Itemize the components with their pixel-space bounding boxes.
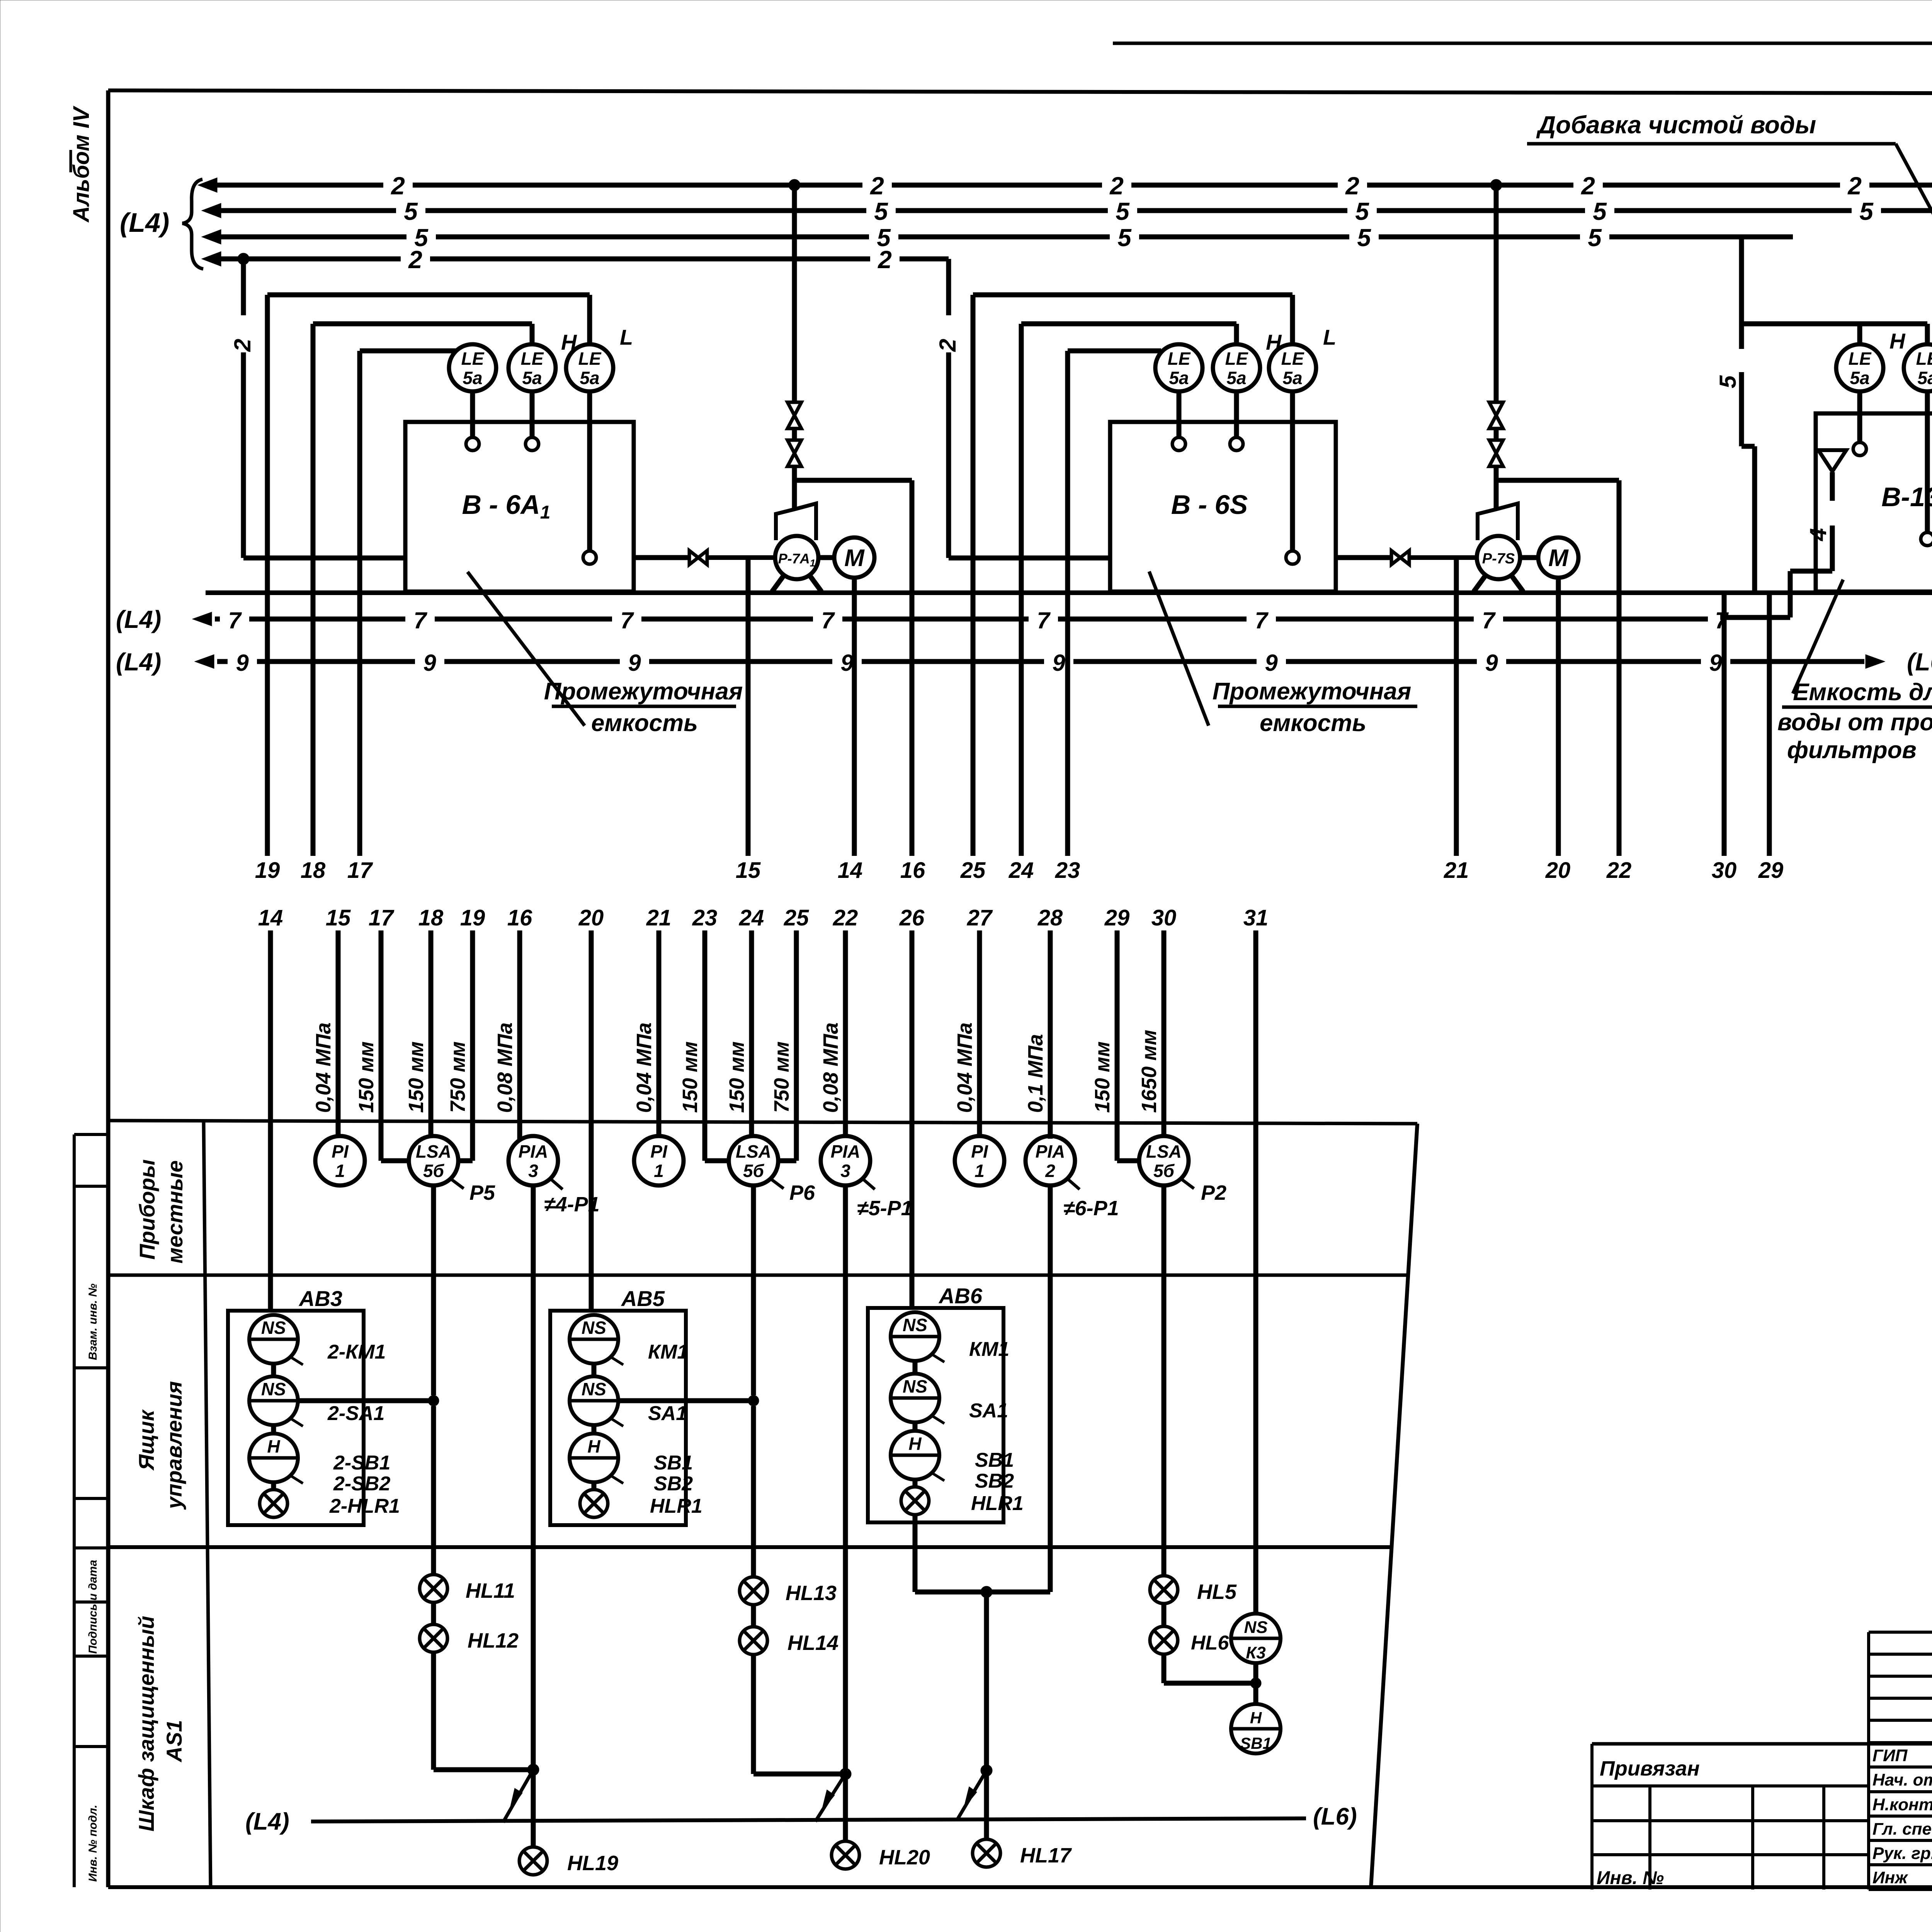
svg-text:НL20: НL20 xyxy=(879,1846,930,1869)
wire bottom bus L4-L6 xyxy=(311,1818,1306,1821)
tank B-13 xyxy=(1816,413,1932,592)
svg-text:26: 26 xyxy=(899,905,925,930)
wire hook LE-H tank2 to line 24 xyxy=(1021,324,1236,344)
valve on tank2 suction xyxy=(1391,551,1409,565)
svg-text:5а: 5а xyxy=(522,368,542,388)
lamp HL11 xyxy=(420,1575,515,1602)
leader tank2 caption xyxy=(1149,571,1209,726)
wire junction down to switch 3 xyxy=(981,1592,992,1776)
svg-text:LSA: LSA xyxy=(1146,1141,1182,1162)
svg-text:16: 16 xyxy=(507,905,532,930)
level element LE 5a H (tank2 mid) xyxy=(1213,330,1282,391)
frame left border xyxy=(106,90,111,1887)
table caption column line xyxy=(204,1121,211,1887)
svg-text:Привязан: Привязан xyxy=(1600,1757,1700,1780)
svg-text:5б: 5б xyxy=(743,1161,765,1181)
svg-text:5: 5 xyxy=(874,197,888,225)
svg-text:150 мм: 150 мм xyxy=(1091,1041,1114,1113)
svg-text:7: 7 xyxy=(1715,607,1729,633)
wire xyxy=(1162,1185,1167,1576)
svg-text:20: 20 xyxy=(578,905,604,930)
svg-text:5: 5 xyxy=(1357,224,1371,252)
wire xyxy=(913,1422,918,1431)
svg-text:5а: 5а xyxy=(1917,368,1932,388)
svg-text:15: 15 xyxy=(736,858,761,883)
wire 17 lower section xyxy=(355,905,395,1161)
svg-text:9: 9 xyxy=(1485,650,1498,676)
lamp HLR1 xyxy=(901,1487,1024,1515)
riser from bus 2 to pump P-7S xyxy=(1494,185,1499,510)
svg-text:7: 7 xyxy=(1255,607,1269,633)
wire LSA2 stem down xyxy=(751,1185,756,1395)
lamp 2-HLR1 xyxy=(260,1490,400,1517)
caption Промежуточная емкость (tank2) xyxy=(1213,678,1417,736)
svg-text:(L4): (L4) xyxy=(116,648,161,676)
caption Приборы местные xyxy=(135,1159,187,1264)
svg-text:АВ3: АВ3 xyxy=(298,1286,342,1311)
svg-text:2: 2 xyxy=(391,172,405,200)
wire 17 down xyxy=(357,351,362,856)
wire hook LE-H tank1 to line 18 xyxy=(313,324,532,344)
svg-text:29: 29 xyxy=(1758,858,1784,883)
motor M2 xyxy=(1520,537,1578,578)
svg-text:НL6: НL6 xyxy=(1191,1632,1229,1654)
wire AB6 lamp down to U junction xyxy=(913,1515,918,1592)
wire bus 2 (line 1, y=479) xyxy=(198,172,1932,200)
svg-text:2: 2 xyxy=(1045,1161,1055,1181)
svg-text:30: 30 xyxy=(1712,858,1737,883)
svg-text:КМ1: КМ1 xyxy=(969,1338,1009,1361)
svg-text:(L6): (L6) xyxy=(1907,648,1932,676)
svg-text:НL11: НL11 xyxy=(466,1579,515,1602)
svg-text:21: 21 xyxy=(646,905,672,930)
svg-text:NS: NS xyxy=(903,1315,927,1335)
title block signature names xyxy=(1872,1746,1932,1887)
tank1 nozzle stems and nozzles xyxy=(466,391,596,564)
frame bottom border xyxy=(108,1885,1932,1889)
wire hook LE-L tank2 to line 25 xyxy=(973,295,1293,344)
switch contact 3 xyxy=(957,1770,986,1819)
svg-text:16: 16 xyxy=(900,858,925,883)
svg-text:9: 9 xyxy=(840,650,854,676)
svg-text:5а: 5а xyxy=(1282,368,1302,388)
svg-text:21: 21 xyxy=(1444,858,1469,883)
wire 20 down from motor M2 xyxy=(1556,578,1561,856)
svg-text:PIA: PIA xyxy=(831,1141,861,1162)
wire 25 lower section xyxy=(770,905,809,1161)
svg-text:2: 2 xyxy=(1847,172,1862,200)
table row line 1 xyxy=(108,1274,1408,1277)
wire 25 down xyxy=(971,295,976,856)
main horizontal pipe line xyxy=(206,590,1932,595)
lamp HL20 xyxy=(832,1841,930,1869)
wire to lamp HL20 xyxy=(843,1774,848,1841)
svg-text:5: 5 xyxy=(1715,375,1741,388)
wire 24 down xyxy=(1019,324,1024,856)
svg-text:Р-7S: Р-7S xyxy=(1482,551,1515,567)
svg-text:7: 7 xyxy=(821,607,835,633)
wire hook LE-L tank1 to line 19 xyxy=(267,295,590,344)
wire xyxy=(751,1605,756,1627)
table row line 2 xyxy=(108,1545,1391,1549)
tank2 nozzle stems and nozzles xyxy=(1172,391,1299,564)
discharge box tank1 (wire 16) xyxy=(794,480,912,856)
pushbutton H SB1 xyxy=(1231,1704,1281,1753)
svg-text:(L4): (L4) xyxy=(120,207,169,238)
lamp HL14 xyxy=(740,1627,838,1655)
svg-text:Н: Н xyxy=(1250,1709,1262,1727)
svg-text:НLR1: НLR1 xyxy=(650,1495,702,1517)
svg-text:Промежуточная: Промежуточная xyxy=(1213,678,1411,705)
wire 16 lower section xyxy=(493,905,532,1141)
svg-text:5а: 5а xyxy=(580,368,599,388)
svg-text:Альбом IV: Альбом IV xyxy=(69,105,94,223)
svg-text:Промежуточная: Промежуточная xyxy=(544,678,743,705)
wire 14 lower section xyxy=(258,905,283,1311)
wire bus 5 (line 3, y=613) xyxy=(202,224,1793,252)
svg-text:7: 7 xyxy=(228,607,242,633)
svg-text:≠5-Р1: ≠5-Р1 xyxy=(857,1197,913,1220)
svg-text:НL12: НL12 xyxy=(468,1629,519,1652)
label Инв. № xyxy=(1597,1868,1664,1888)
svg-text:PIA: PIA xyxy=(519,1141,548,1162)
svg-text:L: L xyxy=(620,325,633,349)
svg-text:2: 2 xyxy=(870,172,884,200)
svg-text:2-НLR1: 2-НLR1 xyxy=(329,1495,400,1517)
svg-text:(L4): (L4) xyxy=(245,1808,289,1835)
wire xyxy=(913,1480,918,1487)
svg-text:4: 4 xyxy=(1805,528,1831,541)
svg-text:Р2: Р2 xyxy=(1201,1181,1226,1204)
svg-text:В - 6S: В - 6S xyxy=(1171,490,1248,520)
svg-text:19: 19 xyxy=(460,905,485,930)
instrument LSA 5b (group1) xyxy=(409,1136,495,1204)
wire 23 down xyxy=(1065,351,1070,856)
label Привязан xyxy=(1600,1757,1700,1780)
svg-text:ГИП: ГИП xyxy=(1872,1746,1908,1765)
tank3 nozzle stems and nozzles xyxy=(1853,391,1932,546)
svg-text:0,08 МПа: 0,08 МПа xyxy=(493,1022,517,1113)
svg-text:2-КМ1: 2-КМ1 xyxy=(327,1341,386,1363)
wire 25 elbow into LSA2 xyxy=(778,1158,796,1163)
upper continuation number labels xyxy=(255,858,1932,883)
frame top border xyxy=(108,90,1932,94)
wire 19 lower section xyxy=(446,905,485,1161)
svg-text:В-13: В-13 xyxy=(1881,482,1932,512)
control box АВ3 xyxy=(228,1286,364,1525)
svg-text:NS: NS xyxy=(1244,1618,1267,1637)
label Добавка чистой воды xyxy=(1527,111,1896,144)
discharge box tank2 (wire 22) xyxy=(1496,480,1619,856)
wire 15 lower section xyxy=(312,905,351,1137)
svg-text:Р-7А1: Р-7А1 xyxy=(778,551,816,569)
svg-text:местные: местные xyxy=(163,1160,187,1264)
funnel drain symbol in tank3 xyxy=(1818,450,1846,471)
svg-text:2: 2 xyxy=(408,246,422,274)
gate valve on riser2 xyxy=(1489,440,1503,466)
svg-text:Н: Н xyxy=(1889,329,1906,353)
lamp HL19 xyxy=(519,1847,618,1875)
wire HL14 down and over to switch 2 xyxy=(753,1655,845,1774)
svg-text:29: 29 xyxy=(1104,905,1130,930)
svg-text:2: 2 xyxy=(935,339,961,352)
relay NS K3 xyxy=(1231,1614,1281,1663)
svg-text:PI: PI xyxy=(332,1141,349,1162)
svg-text:NS: NS xyxy=(582,1379,606,1399)
svg-text:Инв. № подл.: Инв. № подл. xyxy=(87,1805,99,1882)
svg-text:SВ1: SВ1 xyxy=(1240,1734,1272,1752)
motor M1 xyxy=(818,537,874,578)
level element LE 5a L (tank3) xyxy=(1904,324,1932,391)
svg-text:5: 5 xyxy=(1116,197,1130,225)
svg-text:2: 2 xyxy=(230,339,255,352)
svg-text:150 мм: 150 мм xyxy=(405,1041,428,1113)
tank B-6S xyxy=(1110,422,1336,592)
svg-text:≠4-Р1: ≠4-Р1 xyxy=(544,1193,600,1216)
svg-text:SВ2: SВ2 xyxy=(654,1473,693,1495)
svg-text:LE: LE xyxy=(521,349,544,369)
wire xyxy=(592,1425,597,1434)
left margin form column xyxy=(74,1134,108,1887)
svg-text:Рук. гр.: Рук. гр. xyxy=(1872,1844,1932,1863)
svg-text:L: L xyxy=(1323,325,1336,349)
svg-text:31: 31 xyxy=(1243,905,1269,930)
instrument PIA 3 (group1) xyxy=(509,1136,600,1216)
pushbutton H SB1 SB2 xyxy=(891,1431,1014,1492)
wire PIA3 stem down xyxy=(1048,1185,1053,1592)
svg-text:воды от промывки: воды от промывки xyxy=(1777,709,1932,736)
svg-text:150 мм: 150 мм xyxy=(725,1041,748,1113)
wire 26 lower section xyxy=(899,905,925,1308)
wire U junction below AB6 xyxy=(915,1586,1050,1598)
svg-text:5: 5 xyxy=(1859,197,1874,225)
contactor NS KM1 xyxy=(891,1312,1009,1362)
gate valve on riser1 xyxy=(787,440,801,466)
svg-text:7: 7 xyxy=(413,607,427,633)
svg-text:0,04 МПа: 0,04 МПа xyxy=(312,1022,335,1113)
wire to lamp HL17 xyxy=(984,1770,989,1839)
wire AB5 SA1 to HL13 line xyxy=(618,1395,759,1406)
svg-text:0,04 МПа: 0,04 МПа xyxy=(633,1022,656,1113)
instrument PI 1 (line 21) xyxy=(634,1136,684,1185)
svg-text:Н.контр.: Н.контр. xyxy=(1872,1795,1932,1814)
svg-text:NS: NS xyxy=(261,1318,286,1338)
svg-text:АВ5: АВ5 xyxy=(621,1286,665,1311)
svg-text:24: 24 xyxy=(1009,858,1034,883)
svg-text:SА1: SА1 xyxy=(648,1402,687,1425)
lamp HL5 xyxy=(1150,1576,1237,1604)
wire xyxy=(431,1406,436,1575)
wire xyxy=(431,1602,436,1624)
svg-text:20: 20 xyxy=(1545,858,1571,883)
svg-text:5а: 5а xyxy=(463,368,482,388)
svg-text:LE: LE xyxy=(1281,349,1304,369)
wire PIA2 stem down to switch 2 xyxy=(840,1185,851,1780)
svg-text:2-SА1: 2-SА1 xyxy=(327,1402,384,1425)
svg-text:Добавка чистой воды: Добавка чистой воды xyxy=(1536,111,1816,139)
svg-text:2-SВ1: 2-SВ1 xyxy=(333,1452,390,1474)
wire 23 lower section xyxy=(679,905,717,1161)
svg-text:NS: NS xyxy=(582,1318,606,1338)
svg-text:Приборы: Приборы xyxy=(135,1159,159,1260)
svg-text:14: 14 xyxy=(258,905,283,930)
attach table left xyxy=(1592,1786,1869,1889)
level element LE 5a L (tank1 right) xyxy=(566,325,633,391)
control box АВ5 xyxy=(550,1286,686,1525)
wire bus 2 (line 4, y=670) xyxy=(202,246,949,274)
wire xyxy=(592,1482,597,1490)
svg-text:3: 3 xyxy=(528,1161,538,1181)
instrument table right edge xyxy=(1371,1124,1417,1887)
wire xyxy=(271,1364,276,1376)
wire hook LE tank2 to line 23 xyxy=(1068,349,1161,354)
svg-text:0,04 МПа: 0,04 МПа xyxy=(953,1022,976,1113)
level element LE 5a H (tank1 mid) xyxy=(509,330,577,391)
svg-text:7: 7 xyxy=(1482,607,1496,633)
wire 27 lower section xyxy=(953,905,993,1136)
wire 29 elbow into LSA3 xyxy=(1117,1158,1140,1163)
wire PIA1 stem down to switch 1 xyxy=(527,1185,539,1776)
svg-text:Р6: Р6 xyxy=(789,1181,815,1204)
node (L4) for bus 9 xyxy=(116,648,161,676)
svg-text:24: 24 xyxy=(739,905,764,930)
svg-text:7: 7 xyxy=(620,607,634,633)
wire 4 funnel drain xyxy=(1720,472,1832,617)
wire 18 down xyxy=(311,324,316,856)
switch NS SA1 xyxy=(891,1374,1008,1423)
svg-text:5б: 5б xyxy=(1153,1161,1175,1181)
wire bus 5 (line 2, y=545) xyxy=(202,197,1932,225)
svg-text:150 мм: 150 мм xyxy=(679,1041,702,1113)
svg-text:2: 2 xyxy=(1109,172,1124,200)
svg-text:5а: 5а xyxy=(1169,368,1189,388)
svg-text:9: 9 xyxy=(236,650,249,676)
title block main box xyxy=(1592,1632,1932,1889)
switch contact 1 xyxy=(503,1770,533,1822)
left margin rotated caption Взам. инв. № xyxy=(87,1284,99,1360)
svg-text:22: 22 xyxy=(1606,858,1632,883)
wire 28 lower section xyxy=(1024,905,1063,1139)
svg-text:НLR1: НLR1 xyxy=(971,1492,1024,1515)
wire 30 lower section xyxy=(1138,905,1176,1136)
tank B-6A1 xyxy=(405,422,634,592)
level element LE 5a H (tank3) xyxy=(1836,329,1906,391)
wire HL12 down and over to switch 1 xyxy=(434,1652,533,1770)
svg-text:25: 25 xyxy=(784,905,809,930)
check valve on riser1 xyxy=(787,402,801,429)
svg-text:2: 2 xyxy=(1581,172,1595,200)
svg-text:3: 3 xyxy=(840,1161,850,1181)
svg-text:Р5: Р5 xyxy=(469,1181,495,1204)
svg-text:Подпись и дата: Подпись и дата xyxy=(87,1560,99,1654)
switch NS 2-SA1 xyxy=(249,1376,384,1426)
svg-text:АS1: АS1 xyxy=(162,1720,186,1763)
wire xyxy=(592,1364,597,1376)
svg-text:Гл. спец: Гл. спец xyxy=(1872,1820,1932,1838)
left margin rotated caption Инв. № подл. xyxy=(87,1805,99,1882)
contactor NS 2-KM1 xyxy=(249,1315,386,1365)
svg-text:30: 30 xyxy=(1151,905,1177,930)
wire xyxy=(1162,1604,1167,1626)
svg-text:LSA: LSA xyxy=(736,1141,771,1162)
svg-text:НL5: НL5 xyxy=(1197,1580,1237,1604)
wire 19 elbow into LSA1 xyxy=(458,1158,473,1163)
title block signature grid xyxy=(1869,1632,1932,1889)
instrument PIA 3 (group2) xyxy=(821,1136,913,1220)
svg-text:SВ1: SВ1 xyxy=(654,1452,693,1474)
wire 19 down xyxy=(265,295,270,856)
caption Ящик управления xyxy=(134,1381,186,1510)
lamp HL17 xyxy=(973,1839,1072,1867)
wire hook LE tank1 to line 17 xyxy=(360,349,456,354)
instrument LSA 5b (group2) xyxy=(729,1136,815,1204)
leader tank1 caption xyxy=(468,572,585,726)
svg-text:9: 9 xyxy=(1052,650,1065,676)
wire bus 7 xyxy=(192,607,1729,633)
pipe tank2 to pump P-7S xyxy=(1336,555,1477,560)
brace for (L4) bus group xyxy=(182,179,203,269)
wire 23 elbow into LSA2 xyxy=(705,1158,729,1163)
node (L6) bottom bus xyxy=(1313,1803,1357,1830)
caption Емкость для приема воды от промывки фильтров xyxy=(1777,679,1932,764)
wire LSA1 stem down xyxy=(431,1185,436,1395)
svg-text:М: М xyxy=(844,545,865,571)
svg-text:(L6): (L6) xyxy=(1313,1803,1357,1830)
svg-text:В - 6А1: В - 6А1 xyxy=(462,490,551,523)
wire K3 to SB1 xyxy=(1250,1663,1261,1704)
riser from bus 2 to pump P-7A1 xyxy=(792,185,797,510)
lamp HL13 xyxy=(740,1577,837,1605)
wire to lamp HL19 xyxy=(531,1770,536,1847)
svg-text:17: 17 xyxy=(369,905,395,930)
svg-text:НL13: НL13 xyxy=(786,1582,837,1605)
lamp HL12 xyxy=(420,1624,519,1652)
wire 29 down xyxy=(1767,594,1772,856)
svg-text:NS: NS xyxy=(903,1376,927,1396)
svg-text:АВ6: АВ6 xyxy=(938,1284,983,1308)
svg-text:Н: Н xyxy=(908,1434,922,1454)
svg-text:К3: К3 xyxy=(1246,1643,1266,1662)
node (L4) bottom bus xyxy=(245,1808,289,1835)
switch NS SA1 xyxy=(570,1376,687,1426)
node (L4) label top left xyxy=(120,207,169,238)
leader tank3 caption xyxy=(1793,580,1843,694)
svg-text:LE: LE xyxy=(1916,349,1932,369)
wire bus 9 xyxy=(195,650,1885,676)
instrument PI 1 (line 27) xyxy=(955,1136,1004,1185)
wire AB3 SA1 to HL11 line xyxy=(298,1395,439,1406)
svg-text:фильтров: фильтров xyxy=(1787,737,1917,764)
svg-text:14: 14 xyxy=(838,858,863,883)
level element LE 5a (tank1 left) xyxy=(449,344,496,391)
svg-text:7: 7 xyxy=(1037,607,1051,633)
svg-text:Н: Н xyxy=(267,1436,280,1456)
svg-text:5б: 5б xyxy=(423,1161,445,1181)
svg-text:1: 1 xyxy=(335,1161,345,1181)
wire 22 lower section xyxy=(819,905,858,1136)
svg-text:емкость: емкость xyxy=(591,710,698,736)
level element LE 5a L (tank2 right) xyxy=(1269,325,1336,391)
svg-text:(L4): (L4) xyxy=(116,605,161,633)
wire 17 elbow into LSA1 xyxy=(381,1158,409,1163)
svg-text:PI: PI xyxy=(650,1141,668,1162)
wire bus5 drop to tank B-13 xyxy=(1715,237,1755,592)
svg-text:Инж: Инж xyxy=(1872,1868,1908,1887)
svg-text:25: 25 xyxy=(960,858,986,883)
svg-text:LE: LE xyxy=(1168,349,1191,369)
wire 15 down from suction pipe xyxy=(746,558,751,856)
pushbutton H 2-SB1 2-SB2 xyxy=(249,1434,390,1495)
